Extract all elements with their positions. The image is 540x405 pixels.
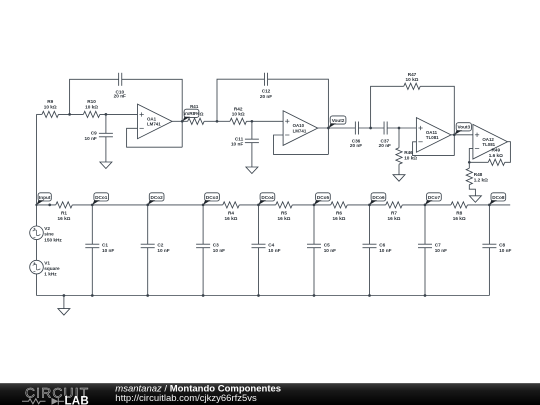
capacitor C36 20 nF — [350, 122, 362, 149]
wire C5 to bottom rail — [313, 248, 315, 296]
wire DCo4 to C4 — [258, 205, 260, 244]
svg-text:DCo3: DCo3 — [206, 195, 219, 200]
svg-text:20 nF: 20 nF — [114, 94, 126, 99]
svg-text:Vout3: Vout3 — [457, 125, 470, 130]
value label R41 — [190, 104, 199, 109]
node C11 tap junction — [251, 120, 254, 123]
wire R49 to OA12 output — [505, 142, 511, 163]
node DCo1 junction — [91, 204, 94, 207]
svg-text:20 nF: 20 nF — [379, 143, 391, 148]
wire DCo5 to C5 — [313, 205, 315, 244]
svg-text:1.2 kΩ: 1.2 kΩ — [474, 178, 488, 183]
node bottom rail junction x=258.5 — [257, 294, 260, 297]
svg-text:R8: R8 — [456, 211, 462, 216]
node Input junction — [35, 204, 37, 206]
svg-text:C12: C12 — [262, 89, 271, 94]
svg-text:DCo1: DCo1 — [95, 195, 108, 200]
capacitor C3 10 nF — [196, 243, 225, 253]
wire C11 to ground — [251, 143, 253, 167]
op-amp OA10 (LM741) — [283, 111, 318, 146]
capacitor C10 20 nF — [114, 73, 126, 99]
node R48 junction — [468, 161, 471, 164]
wire R41 to stage2 node — [204, 120, 217, 122]
value label R41 ohm suffix — [200, 112, 204, 117]
wire C36 to mid node — [359, 127, 384, 129]
svg-text:V1: V1 — [44, 260, 50, 265]
svg-text:C1: C1 — [102, 243, 108, 248]
wire R47 to stage3 right vertical — [420, 86, 454, 155]
svg-text:10 kΩ: 10 kΩ — [232, 111, 245, 116]
node bottom rail junction x=203.1 — [202, 294, 205, 297]
svg-text:DCo7: DCo7 — [428, 195, 441, 200]
svg-text:R1: R1 — [61, 211, 67, 216]
node bottom rail junction x=425.0 — [424, 294, 427, 297]
node flag DCo6 — [370, 193, 386, 205]
node flag DCo1 — [92, 193, 108, 205]
wire OA11 output — [451, 134, 473, 136]
wire R8 to DCo8 and stub — [467, 204, 510, 206]
op-amp OA11 (TL081) — [416, 118, 451, 153]
node R46 tap junction — [398, 127, 401, 130]
ground main ground — [58, 309, 70, 316]
resistor R8 16 kΩ — [451, 202, 468, 221]
wire Input to R1 — [37, 204, 56, 206]
svg-text:10 nF: 10 nF — [379, 248, 391, 253]
voltage source V1 square 1 kHz — [30, 260, 60, 276]
node stage3 output junction — [453, 133, 456, 136]
wire R4 to DCo4 — [239, 204, 276, 206]
capacitor C1 10 nF — [85, 243, 114, 253]
wire C10 to right vertical of stage1 feedback — [122, 79, 182, 147]
wire DCo2 to C2 — [147, 205, 149, 244]
svg-text:10 nF: 10 nF — [157, 248, 169, 253]
wire ladder R4 segment gap — [203, 204, 223, 206]
svg-text:DCo2: DCo2 — [151, 195, 164, 200]
wire C2 to bottom rail — [147, 248, 149, 296]
wire bottom rail — [37, 295, 490, 297]
wire C1 to bottom rail — [91, 248, 93, 296]
wire C7 to bottom rail — [424, 248, 426, 296]
svg-text:C8: C8 — [499, 243, 505, 248]
wire R48 stem top — [468, 162, 470, 168]
resistor R42 10 kΩ — [230, 106, 247, 124]
wire C3 to bottom rail — [202, 248, 204, 296]
node bottom rail junction x=314.0 — [313, 294, 316, 297]
wire R47 feedback up and across — [371, 86, 404, 128]
wire DCo1 to C1 — [91, 205, 93, 244]
wire input rail top (left rail down to Input node) — [36, 114, 38, 226]
wire R7 to DCo7 and on — [402, 204, 451, 206]
wire OA12 inverting input loop left — [469, 149, 488, 163]
wire OA1 inverting input loop — [127, 128, 183, 147]
svg-text:10 kΩ: 10 kΩ — [406, 77, 419, 82]
wire C12 to stage2 right vertical — [268, 79, 329, 154]
wire V1 to bottom rail — [36, 274, 38, 296]
node C9 tap junction — [105, 113, 108, 116]
capacitor C8 10 nF — [482, 243, 511, 253]
resistor R48 1.2 kΩ — [466, 168, 488, 185]
svg-text:16 kΩ: 16 kΩ — [388, 216, 401, 221]
ground stage4 R48 ground — [469, 196, 481, 203]
wire R48 to ground jog — [469, 185, 475, 196]
CircuitLab logo — [22, 385, 89, 405]
svg-text:R48: R48 — [474, 172, 483, 177]
node DCo5 junction — [313, 204, 316, 207]
svg-text:10 nF: 10 nF — [231, 142, 243, 147]
capacitor C9 10 nF — [85, 131, 113, 141]
capacitor C5 10 nF — [307, 243, 336, 253]
wire OA1 output — [172, 120, 188, 122]
wire C37 to R46 node — [387, 127, 416, 129]
resistor R1 16 kΩ — [56, 202, 73, 221]
svg-text:10 nF: 10 nF — [85, 136, 97, 141]
ground stage1 C9 ground — [100, 162, 112, 169]
svg-text:VxR8%: VxR8% — [184, 111, 201, 116]
resistor R5 16 kΩ — [276, 202, 293, 221]
svg-text:16 kΩ: 16 kΩ — [333, 216, 346, 221]
resistor R41 VxR8%Ω — [188, 118, 205, 124]
wire C11 stem — [251, 121, 253, 139]
svg-text:C11: C11 — [235, 136, 244, 141]
svg-text:TL081: TL081 — [482, 142, 495, 147]
wire R5 to DCo5 and on — [292, 204, 331, 206]
svg-text:150 kHz: 150 kHz — [44, 237, 62, 242]
wire C9 to ground — [105, 137, 107, 162]
svg-text:20 nF: 20 nF — [350, 143, 362, 148]
node DCo6 junction — [368, 204, 371, 207]
node flag R41 parameter flag — [183, 109, 201, 121]
node flag DCo3 — [203, 193, 219, 205]
wire R10 to C9 node — [100, 113, 138, 115]
svg-text:1 kHz: 1 kHz — [44, 272, 57, 277]
svg-text:16 kΩ: 16 kΩ — [453, 216, 466, 221]
node DCo7 junction — [424, 204, 427, 207]
svg-text:10 nF: 10 nF — [435, 248, 447, 253]
node flag Input — [37, 193, 52, 205]
svg-text:sine: sine — [44, 232, 54, 237]
svg-text:square: square — [44, 266, 60, 271]
svg-text:C5: C5 — [324, 243, 330, 248]
svg-text:DCo8: DCo8 — [492, 195, 505, 200]
capacitor C12 20 nF — [260, 73, 272, 99]
node DCo2 junction — [146, 204, 149, 207]
ground stage2 C11 ground — [246, 167, 258, 174]
capacitor C7 10 nF — [418, 243, 447, 253]
svg-text:LAB: LAB — [65, 395, 89, 405]
node stage2 output junction — [327, 127, 330, 130]
svg-text:R5: R5 — [281, 211, 287, 216]
node flag DCo5 — [314, 193, 330, 205]
svg-text:R6: R6 — [336, 211, 342, 216]
wire DCo6 to C6 — [369, 205, 371, 244]
wire DCo7 to C7 — [424, 205, 426, 244]
wire C8 to bottom rail — [488, 248, 490, 296]
capacitor C4 10 nF — [252, 243, 281, 253]
svg-text:10 nF: 10 nF — [499, 248, 511, 253]
node DCo3 junction — [202, 204, 205, 207]
wire ground stem bottom left — [63, 296, 65, 309]
wire DCo8 to C8 — [488, 205, 490, 244]
capacitor C37 20 nF — [379, 122, 391, 149]
wire R46 to ground — [398, 164, 400, 175]
resistor R47 10 kΩ — [404, 72, 421, 90]
svg-text:10 kΩ: 10 kΩ — [404, 155, 417, 160]
svg-text:R49: R49 — [491, 148, 500, 153]
wire stage1 input row — [37, 113, 42, 115]
voltage source V2 sine 150 kHz — [30, 226, 63, 242]
wire C4 to bottom rail — [258, 248, 260, 296]
svg-text:16 kΩ: 16 kΩ — [58, 216, 71, 221]
node DCo4 junction — [257, 204, 260, 207]
wire R6 to DCo6 and on — [347, 204, 386, 206]
resistor R4 16 kΩ — [223, 202, 240, 221]
svg-text:LM741: LM741 — [147, 122, 161, 127]
resistor R9 10 kΩ — [42, 99, 59, 117]
node flag DCo8 — [489, 193, 505, 205]
svg-text:DCo5: DCo5 — [317, 195, 330, 200]
wire R42 to C11 node — [246, 120, 283, 122]
svg-text:DCo6: DCo6 — [372, 195, 385, 200]
node stage2 input junction — [216, 120, 219, 123]
svg-text:16 kΩ: 16 kΩ — [278, 216, 291, 221]
wire OA10 output — [318, 127, 356, 129]
svg-text:1.6 kΩ: 1.6 kΩ — [489, 153, 503, 158]
svg-text:Input: Input — [39, 195, 51, 200]
svg-text:16 kΩ: 16 kΩ — [225, 216, 238, 221]
svg-text:Ω: Ω — [200, 112, 204, 117]
svg-text:10 nF: 10 nF — [268, 248, 280, 253]
svg-text:C7: C7 — [435, 243, 441, 248]
wire node A up to C10 rail — [70, 79, 119, 114]
wire C6 to bottom rail — [369, 248, 371, 296]
wire OA11 inverting input loop — [413, 142, 455, 156]
node between C36 and C37 (R47 tap) — [369, 127, 372, 130]
svg-text:R41: R41 — [190, 104, 199, 109]
resistor R7 16 kΩ — [386, 202, 403, 221]
node bottom rail junction x=63.9 — [63, 294, 66, 297]
resistor R10 10 kΩ — [83, 99, 100, 117]
node bottom rail junction x=369.5 — [368, 294, 371, 297]
node stage1 output junction — [181, 120, 184, 123]
capacitor C11 10 nF — [231, 136, 259, 146]
svg-text:C3: C3 — [213, 243, 219, 248]
svg-text:10 nF: 10 nF — [213, 248, 225, 253]
footer text — [115, 383, 281, 404]
capacitor C6 10 nF — [363, 243, 392, 253]
wire OA10 inverting input loop — [274, 135, 329, 154]
wire stage2 feedback left vertical — [217, 79, 264, 121]
svg-text:10 nF: 10 nF — [102, 248, 114, 253]
capacitor C2 10 nF — [141, 243, 170, 253]
resistor R49 1.6 kΩ — [488, 148, 505, 166]
node A junction after R9 (feedback tap) — [68, 113, 71, 116]
svg-text:DCo4: DCo4 — [261, 195, 274, 200]
svg-text:C2: C2 — [157, 243, 163, 248]
wire stage2 input row a — [217, 120, 230, 122]
ground stage3 R46 ground — [393, 175, 405, 182]
node flag DCo7 — [425, 193, 441, 205]
wire R46 stem top — [398, 128, 400, 148]
wire between V2 and V1 — [36, 240, 38, 261]
node bottom rail junction x=147.7 — [146, 294, 149, 297]
svg-text:LM741: LM741 — [293, 128, 307, 133]
node flag Vout2 — [329, 116, 346, 128]
wire R1 to DCo1 — [72, 204, 203, 206]
svg-text:R4: R4 — [228, 211, 234, 216]
node flag DCo2 — [148, 193, 164, 205]
wire C9 stem from node — [105, 114, 107, 133]
wire DCo3 to C3 — [202, 205, 204, 244]
resistor R6 16 kΩ — [331, 202, 348, 221]
svg-text:http://circuitlab.com/cjkzy66r: http://circuitlab.com/cjkzy66rfz5vs — [115, 393, 257, 404]
svg-text:10 nF: 10 nF — [324, 248, 336, 253]
node DCo8 junction — [488, 204, 491, 207]
node bottom rail junction x=92.3 — [91, 294, 94, 297]
footer bar — [0, 383, 540, 405]
node flag DCo4 — [259, 193, 275, 205]
node R1 left terminal — [48, 204, 51, 207]
op-amp OA12 (TL081) — [473, 124, 508, 159]
svg-text:20 nF: 20 nF — [260, 94, 272, 99]
svg-text:TL081: TL081 — [426, 135, 439, 140]
node flag Vout3 — [455, 123, 472, 135]
op-amp OA1 (LM741) — [138, 104, 173, 139]
wire R9 to node A — [58, 113, 83, 115]
svg-text:R7: R7 — [391, 211, 397, 216]
svg-text:C6: C6 — [379, 243, 385, 248]
svg-text:Vout2: Vout2 — [332, 118, 345, 123]
svg-text:10 kΩ: 10 kΩ — [44, 104, 57, 109]
resistor R46 10 kΩ — [396, 148, 417, 165]
svg-text:V2: V2 — [44, 226, 50, 231]
svg-text:10 kΩ: 10 kΩ — [85, 104, 98, 109]
svg-text:C4: C4 — [268, 243, 274, 248]
